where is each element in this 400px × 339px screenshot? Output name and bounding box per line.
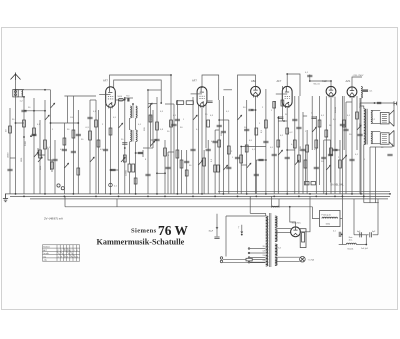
wire [165, 103, 174, 105]
resistor R5 [33, 128, 36, 135]
tube V5 AL2 [326, 86, 336, 97]
capacitor C8 [154, 139, 159, 141]
wire [315, 116, 317, 194]
wire mains cord [223, 258, 246, 260]
node [286, 149, 288, 151]
wire [205, 104, 207, 148]
wire V3 grid [238, 75, 256, 87]
wire [241, 146, 266, 148]
node [273, 196, 275, 198]
coil T1 top [272, 206, 280, 207]
resistor R23 [305, 182, 310, 185]
svg-text:Wa 41: Wa 41 [314, 83, 321, 85]
node [365, 244, 367, 246]
node [201, 193, 203, 195]
wire [335, 149, 340, 151]
switch S6 [151, 141, 155, 146]
capacitor C42 [254, 174, 259, 176]
wire [148, 89, 161, 91]
jack J1 [109, 183, 113, 187]
wire [252, 259, 265, 261]
resistor R33 [123, 155, 126, 162]
capacitor C1 [21, 110, 26, 112]
transformer core [366, 109, 367, 145]
tap selector contacts [248, 248, 250, 250]
wire [372, 143, 381, 145]
wire OT top [360, 102, 394, 104]
table tube data [43, 245, 80, 261]
svg-text:Feldspule: Feldspule [322, 215, 332, 217]
resistor R3 [72, 130, 75, 138]
capacitor C51 [349, 159, 354, 161]
switch S19 [357, 125, 361, 130]
svg-text:DA DBL DAL: DA DBL DAL [331, 184, 345, 187]
node [156, 193, 158, 195]
svg-text:Ia mA: Ia mA [43, 252, 49, 255]
wire [51, 122, 79, 124]
wire [339, 244, 347, 246]
node [325, 193, 327, 195]
node [214, 196, 216, 198]
wire [222, 96, 224, 194]
mains plug [220, 257, 222, 259]
wire [50, 90, 52, 170]
wire [132, 104, 134, 106]
wire [290, 207, 296, 227]
capacitor C51 trimmer [118, 98, 123, 101]
wire [300, 196, 310, 231]
wire [237, 87, 239, 194]
switch S16 [295, 160, 299, 165]
node [342, 196, 344, 198]
wire tap 220 [250, 261, 266, 263]
node [363, 196, 365, 198]
switch S21 [38, 157, 42, 162]
resistor R13 [217, 165, 220, 172]
wire [111, 169, 119, 171]
capacitor C3 [76, 134, 81, 136]
node [286, 73, 288, 75]
wire [391, 144, 393, 147]
wire [124, 100, 126, 194]
wire [373, 234, 378, 236]
switch S15 [238, 115, 242, 120]
node [110, 193, 112, 195]
svg-text:AF7: AF7 [103, 79, 108, 83]
node [389, 193, 391, 195]
wire [298, 96, 300, 194]
resistor R39 [218, 140, 221, 147]
switch S2 [45, 115, 49, 120]
resistor R40 [245, 145, 248, 152]
capacitor C27 [360, 232, 362, 237]
node [147, 196, 149, 198]
wire [345, 102, 347, 194]
wire [147, 90, 149, 194]
node [23, 96, 25, 98]
wire [273, 101, 275, 194]
wire [168, 151, 174, 153]
wire [192, 97, 194, 194]
wire tap 150 [250, 257, 266, 259]
capacitor C12 [217, 125, 222, 127]
transformer T1 core [269, 213, 271, 267]
wire [63, 123, 65, 194]
switch S3 [51, 103, 55, 108]
capacitor C35 [87, 117, 92, 119]
node [283, 120, 285, 122]
wire V5 cathode [330, 96, 332, 194]
capacitor C4 [7, 169, 12, 171]
wire mains tap top [226, 215, 265, 217]
node [309, 80, 311, 82]
node [265, 193, 267, 195]
resistor R16 [265, 120, 268, 128]
switch S9 [278, 150, 282, 155]
resistor R54 [51, 162, 54, 169]
wire [360, 98, 362, 194]
wire AVC loop inner [114, 80, 162, 103]
node [255, 196, 257, 198]
node [30, 135, 32, 137]
resistor R44 [298, 155, 301, 162]
resistor R15 [240, 155, 243, 163]
capacitor C41 [235, 157, 240, 159]
tube V6b AZ1 envelope bottom [291, 227, 301, 237]
wire V4 cathode [286, 107, 288, 194]
wire [256, 159, 266, 161]
wire [305, 150, 307, 185]
resistor R4 [89, 131, 92, 140]
loudspeaker LS1 [380, 110, 394, 126]
capacitor C23 [363, 90, 368, 92]
svg-text:~0,75A: ~0,75A [308, 259, 315, 262]
capacitor C2 [62, 149, 67, 151]
wire [334, 97, 336, 194]
wire [303, 115, 307, 117]
coil L3 choke [361, 87, 362, 99]
wire [128, 172, 130, 194]
svg-text:AF7: AF7 [277, 79, 282, 83]
wire switch arm arrow [241, 225, 243, 234]
capacitor C38 [190, 149, 195, 151]
switch S4 [121, 157, 125, 162]
resistor R49 [343, 120, 346, 127]
jack J4 [61, 187, 64, 190]
coil IF1a [130, 106, 131, 118]
svg-text:2V~(48/67) mA: 2V~(48/67) mA [44, 217, 63, 221]
wire [219, 119, 229, 121]
wire [294, 96, 296, 194]
node [223, 193, 225, 195]
capacitor C5 [122, 143, 127, 145]
wire [249, 196, 251, 213]
wire [370, 146, 392, 148]
capacitor C24 [377, 102, 381, 104]
capacitor C29 [52, 159, 57, 161]
connector block [300, 229, 306, 248]
switch S12 [90, 157, 94, 162]
wire [271, 196, 273, 207]
wire V6 top [352, 77, 362, 87]
wire [157, 172, 165, 174]
node [218, 119, 220, 121]
resistor R25 [39, 150, 42, 158]
coil OT primary [364, 109, 366, 145]
svg-text:6,3: 6,3 [278, 248, 281, 250]
svg-text:12mA: 12mA [334, 107, 337, 113]
coil T1 sec heater1 [275, 216, 277, 228]
capacitor C19 [285, 157, 290, 159]
wire [142, 150, 144, 157]
node [124, 99, 126, 101]
node [265, 159, 267, 161]
wire [116, 99, 125, 101]
resistor R36 [170, 120, 173, 127]
wire [393, 103, 395, 110]
svg-text:Netzdr.: Netzdr. [348, 247, 354, 250]
wire [246, 100, 248, 194]
node [23, 136, 25, 138]
capacitor C14 [244, 129, 249, 131]
resistor R37 [185, 170, 188, 176]
resistor R24 [311, 182, 316, 185]
svg-text:10000: 10000 [7, 153, 9, 158]
svg-text:100Ω: 100Ω [326, 223, 331, 225]
resistor R18 [286, 128, 289, 134]
wire [346, 101, 352, 103]
node [44, 193, 46, 195]
wire heater bus [10, 195, 390, 197]
capacitor C9 [175, 119, 180, 121]
wire [54, 140, 56, 194]
wire [330, 140, 332, 183]
resistor R11 [203, 158, 206, 166]
node [374, 102, 376, 104]
wire [116, 199, 118, 207]
svg-text:40000: 40000 [126, 169, 128, 176]
svg-text:Rö= 250v: Rö= 250v [292, 222, 302, 224]
loudspeaker LS2 [380, 130, 394, 146]
capacitor C49 [332, 149, 337, 151]
wire [72, 96, 74, 194]
capacitor C52 [357, 134, 362, 136]
wire [89, 100, 91, 194]
svg-text:AZ1: AZ1 [346, 79, 351, 83]
wire [372, 131, 381, 133]
node [77, 122, 79, 124]
wire [265, 213, 267, 216]
capacitor C46 [300, 149, 305, 151]
coil L1 antenna coupling [13, 90, 18, 97]
wire [360, 103, 364, 109]
node [330, 80, 332, 82]
node [360, 193, 362, 195]
wire [276, 227, 291, 229]
resistor R38 [207, 120, 210, 127]
wire [278, 120, 287, 122]
svg-text:110: 110 [263, 246, 266, 248]
svg-text:30µF: 30µF [209, 231, 214, 233]
node [334, 196, 336, 198]
resistor R1 [23, 120, 26, 127]
capacitor C32 [328, 154, 333, 156]
wire [325, 96, 327, 194]
node [110, 169, 112, 171]
node [135, 152, 137, 154]
capacitor C6 [138, 152, 143, 154]
wire [276, 260, 300, 262]
resistor R50 [356, 112, 359, 119]
wire [90, 99, 96, 101]
switch S5 [148, 103, 152, 108]
capacitor C10 [184, 161, 189, 163]
svg-text:Ug: Ug [43, 256, 46, 258]
node [255, 109, 257, 111]
switch S14 [198, 160, 202, 165]
node [309, 193, 311, 195]
svg-text:2x0,1µF: 2x0,1µF [361, 248, 369, 250]
capacitor C40 [226, 167, 231, 169]
resistor R17 [273, 102, 276, 109]
svg-text:-Ug: -Ug [43, 260, 46, 262]
node [23, 196, 25, 198]
resistor R53 [186, 101, 193, 105]
node [177, 193, 179, 195]
wire V6 cathode [351, 97, 353, 194]
node [135, 193, 137, 195]
resistor R7 [132, 164, 135, 172]
switch S10 [326, 165, 330, 170]
capacitor C11 [206, 149, 211, 151]
coil field [322, 217, 338, 218]
switch S8 [247, 163, 251, 168]
wire [64, 95, 96, 97]
wire [16, 122, 25, 124]
node [246, 193, 248, 195]
wire tap 125 [250, 252, 266, 254]
wire V2 cathode [201, 106, 203, 194]
resistor R48 [330, 148, 333, 155]
wire [265, 89, 267, 194]
switch S1 [34, 152, 38, 157]
wire antenna lead [15, 80, 17, 194]
svg-text:dros.: dros. [349, 240, 353, 242]
wire [44, 100, 46, 194]
switch S20 [119, 123, 123, 128]
switch S17 [312, 127, 316, 132]
capacitor C28 [370, 232, 372, 237]
svg-text:Röhren: Röhren [43, 247, 50, 249]
tube V1 AF7 [99, 87, 115, 109]
node [192, 196, 194, 198]
switch S13 [193, 115, 197, 120]
wire [218, 100, 220, 194]
resistor R10 [176, 150, 179, 158]
coil OT sec1 [371, 110, 372, 123]
antenna [11, 73, 21, 81]
wire [156, 97, 158, 194]
resistor R27 [180, 160, 183, 168]
wire [164, 140, 166, 194]
svg-text:Kammermusik-Schatulle: Kammermusik-Schatulle [97, 238, 185, 247]
jack J3 [57, 184, 60, 187]
wire [369, 147, 371, 203]
capacitor C50 [343, 129, 348, 131]
coil T1 primary [266, 216, 268, 266]
node [237, 196, 239, 198]
wire [148, 103, 157, 105]
node [64, 196, 66, 198]
resistor R45 [306, 145, 309, 152]
svg-text:125: 125 [263, 251, 266, 253]
svg-text:76 W: 76 W [158, 223, 188, 238]
capacitor C13 [213, 141, 218, 143]
wire [181, 150, 183, 194]
wire [38, 148, 45, 155]
fuse F1 [246, 258, 252, 261]
resistor R21 [339, 160, 342, 168]
wire [10, 157, 16, 159]
field coil box [320, 211, 341, 227]
resistor R43 [281, 100, 284, 106]
resistor R55 [9, 126, 12, 133]
wire AVC loop outer [110, 75, 172, 194]
capacitor C20 [307, 75, 312, 77]
wire [16, 89, 51, 91]
capacitor C33 [31, 134, 36, 136]
coil IF2b [136, 130, 137, 142]
capacitor C22 [340, 124, 345, 126]
wire HT bus [218, 190, 390, 192]
capacitor C45 [292, 119, 297, 121]
resistor R46 [318, 120, 321, 127]
capacitor C43 [263, 141, 268, 143]
node [241, 234, 243, 236]
node [341, 234, 343, 236]
switch S7 [223, 165, 227, 170]
wire [356, 244, 366, 246]
wire V5 grid top [310, 81, 331, 86]
wire [118, 100, 120, 194]
wire [203, 150, 205, 194]
wire [48, 148, 52, 172]
coil T1 sec HT [275, 230, 277, 242]
capacitor C26 [339, 232, 341, 237]
wire [363, 145, 365, 203]
wire [167, 152, 169, 194]
capacitor C7 [110, 169, 115, 171]
wire [241, 164, 247, 166]
wire [18, 96, 24, 98]
wire [251, 109, 256, 111]
resistor R19 [293, 140, 296, 148]
tube V2 AF7 [191, 87, 207, 108]
resistor R32 [109, 128, 112, 135]
wire [125, 97, 133, 99]
resistor R52 [177, 101, 184, 105]
wire [340, 218, 342, 220]
resistor R35 [149, 115, 152, 122]
node [147, 89, 149, 91]
wire [278, 199, 280, 208]
coil IF2a [130, 130, 131, 142]
wire V4 grid top [287, 74, 300, 96]
wire [215, 129, 219, 131]
jack J2 [394, 101, 397, 105]
wire [356, 96, 358, 150]
lamp dial [300, 256, 306, 262]
